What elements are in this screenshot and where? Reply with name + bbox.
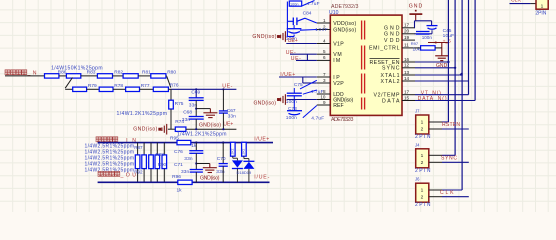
port 辅助电源_IN — [96, 137, 118, 142]
wire — [248, 159, 250, 162]
svg-text:R76: R76 — [170, 83, 179, 89]
svg-text:1: 1 — [421, 153, 424, 159]
svg-text:UE-: UE- — [286, 50, 296, 56]
wire diagonal to pin 1a — [297, 18, 305, 21]
svg-text:R96: R96 — [172, 174, 181, 180]
wire — [293, 35, 295, 37]
svg-text:17: 17 — [404, 23, 410, 28]
svg-text:33n: 33n — [228, 114, 237, 120]
resistor R91 shunt — [162, 155, 167, 169]
wire rail 辅助电源_IN / I/UE+ — [98, 142, 273, 144]
resistor R88 shunt — [142, 155, 147, 169]
ground symbol GND(iso) — [159, 124, 167, 135]
svg-text:5: 5 — [323, 49, 326, 54]
svg-text:33n: 33n — [181, 169, 190, 175]
resistor R74 — [175, 127, 186, 131]
wire D19 to rail — [248, 169, 250, 182]
wire — [244, 158, 249, 160]
svg-text:R87: R87 — [134, 145, 143, 150]
wire C70 to rail — [222, 166, 224, 182]
pin stub — [530, 3, 536, 5]
resistor R81 — [123, 74, 138, 78]
wire pin2 — [442, 128, 469, 130]
svg-text:100n: 100n — [286, 115, 297, 121]
ground symbol GND(iso) middle — [203, 109, 217, 118]
wire — [287, 20, 293, 22]
pin 1 stub — [429, 121, 442, 123]
svg-text:DATA_N(): DATA_N() — [418, 96, 447, 102]
wire — [195, 153, 197, 169]
resistor R77 — [126, 87, 140, 91]
resistor R80 — [151, 74, 166, 78]
svg-text:2: 2 — [421, 194, 424, 200]
wire — [168, 88, 171, 90]
resistor R79 — [73, 87, 87, 91]
wire down to ground — [441, 43, 443, 56]
wire shunt 2 top — [143, 143, 145, 155]
pin 15 DATA stub — [402, 100, 415, 102]
svg-text:C68: C68 — [183, 109, 192, 115]
svg-text:VM: VM — [333, 52, 342, 58]
wire XTAL2 — [415, 80, 469, 82]
connector J6 body — [416, 183, 429, 202]
resistor R75 — [169, 100, 174, 109]
resistor R90 shunt — [155, 155, 160, 169]
wire shunt 3 top — [150, 143, 152, 155]
junction — [454, 67, 456, 69]
resistor R87 shunt — [135, 155, 140, 169]
wire — [140, 88, 154, 90]
wire — [195, 100, 197, 116]
wire diagonal to pin 2 — [300, 29, 317, 32]
wire — [287, 36, 294, 38]
svg-text:V1P: V1P — [333, 41, 344, 47]
wire diagonal row1 to row2 left — [65, 78, 72, 89]
svg-text:R77: R77 — [141, 83, 150, 89]
svg-text:12: 12 — [404, 63, 410, 68]
wire — [286, 36, 289, 38]
svg-text:1/4W1.2K1%25ppm: 1/4W1.2K1%25ppm — [117, 111, 168, 117]
diode D19 — [243, 162, 254, 169]
wire shunt 3 bottom — [150, 169, 152, 183]
resistor R83 — [66, 74, 80, 78]
svg-text:6: 6 — [323, 55, 326, 60]
svg-text:VDD(iso): VDD(iso) — [333, 21, 356, 27]
svg-text:I/UE-: I/UE- — [254, 175, 269, 181]
capacitor C69 — [189, 98, 204, 101]
junction — [447, 61, 449, 63]
op-amp U10 ADE7932/3 body — [330, 15, 402, 115]
svg-text:20: 20 — [404, 29, 410, 34]
wire pin1 — [442, 121, 448, 123]
svg-text:C69: C69 — [191, 89, 200, 95]
junction — [222, 88, 224, 90]
wire diagonal row1 to row2 right — [167, 76, 171, 87]
wire C71 to rail — [195, 172, 197, 182]
capacitor C73 100n polarized — [287, 110, 302, 112]
wire pin1 — [442, 189, 462, 191]
wire DATA net — [415, 100, 475, 102]
junction — [195, 88, 197, 90]
svg-text:_OU: _OU — [120, 173, 137, 179]
wire pin1 — [442, 154, 455, 156]
wire — [168, 128, 175, 130]
wire — [243, 156, 245, 158]
wire row2 — [65, 88, 73, 90]
pin 16 RESET_EN stub — [402, 61, 415, 63]
svg-text:16: 16 — [404, 57, 410, 62]
wire +_5 net — [428, 42, 448, 44]
resistor R93 vertical — [231, 142, 236, 156]
wire bend — [460, 73, 462, 75]
svg-text:DATA: DATA — [382, 98, 400, 104]
wire shunt 4 top — [156, 143, 158, 155]
pin 12 SYNC stub — [402, 67, 415, 69]
ground symbol GND(iso) lower — [203, 164, 217, 173]
wire — [165, 75, 168, 77]
pin 4 V1P stub — [317, 43, 331, 45]
wire shunt 4 bottom — [156, 169, 158, 183]
cathode bar D19 — [243, 160, 254, 162]
wire — [293, 88, 295, 93]
svg-text:R75: R75 — [175, 101, 184, 107]
svg-text:R90: R90 — [158, 162, 167, 167]
wire vertical DATA bus — [474, 0, 476, 101]
wire IP — [279, 76, 317, 78]
svg-text:2: 2 — [421, 160, 424, 166]
wire — [302, 77, 304, 83]
svg-text:GND(iso): GND(iso) — [133, 127, 157, 133]
resistor R94 vertical — [242, 142, 247, 156]
wire UE+ node — [186, 128, 237, 130]
wire — [113, 75, 124, 77]
wire — [415, 47, 421, 49]
svg-text:2PIN: 2PIN — [535, 10, 546, 16]
svg-text:4: 4 — [323, 38, 326, 43]
wire IM — [296, 59, 317, 61]
wire — [236, 158, 238, 160]
wire — [286, 2, 288, 22]
svg-text:R83: R83 — [87, 70, 96, 76]
svg-text:17: 17 — [404, 90, 410, 95]
svg-text:33n: 33n — [184, 156, 193, 162]
wire to C69 — [195, 89, 197, 98]
wire — [435, 47, 442, 49]
capacitor C85 10nF polarized — [287, 28, 302, 30]
capacitor C46 100n — [416, 31, 430, 33]
svg-text:10: 10 — [320, 94, 326, 99]
svg-text:1: 1 — [421, 188, 424, 194]
svg-text:3: 3 — [323, 78, 326, 83]
connector J5 body — [536, 0, 548, 9]
wire — [233, 157, 238, 159]
wire — [510, 3, 531, 5]
svg-text:33n: 33n — [182, 117, 191, 123]
wire shunt 5 top — [163, 143, 165, 155]
svg-text:SYNC: SYNC — [382, 66, 400, 72]
wire UE- net — [171, 88, 236, 90]
cathode bar D18 — [232, 168, 243, 170]
svg-text:R86: R86 — [58, 70, 67, 76]
junction — [195, 128, 197, 130]
wire C68 to UE+ node — [195, 119, 197, 129]
pin 20 GND stub — [402, 33, 415, 35]
svg-text:2R2: 2R2 — [231, 148, 235, 154]
pin 1 stub — [429, 189, 442, 191]
ground symbol GND(iso) top — [278, 31, 286, 42]
wire XTAL1 — [415, 74, 460, 76]
svg-text:2: 2 — [421, 127, 424, 133]
svg-text:10k: 10k — [413, 46, 421, 52]
svg-text:2R2: 2R2 — [242, 148, 246, 154]
wire — [431, 21, 433, 26]
svg-text:1: 1 — [541, 4, 544, 10]
capacitor C84 — [293, 18, 297, 26]
junction — [195, 141, 197, 143]
wire diagonal LDO — [303, 90, 317, 94]
pin 2 GND(iso) stub — [317, 29, 331, 31]
svg-text:XTAL2: XTAL2 — [381, 79, 400, 85]
wire tie VM-IM — [306, 54, 308, 60]
capacitor C67 — [219, 111, 228, 113]
overline RESET_EN — [370, 57, 400, 59]
pin 11 EMI_CTRL stub — [402, 47, 415, 49]
svg-text:4.7uF: 4.7uF — [307, 1, 320, 7]
pin 5 VM stub — [317, 53, 331, 55]
svg-text:GND: GND — [384, 32, 400, 38]
resistor 100n top edge — [289, 1, 301, 6]
svg-text:J6: J6 — [415, 177, 420, 182]
svg-text:100n: 100n — [290, 3, 298, 7]
resistor R96 — [178, 180, 192, 184]
svg-text:GND(iso): GND(iso) — [199, 123, 221, 129]
wire vertical RSTEN bus — [447, 0, 449, 122]
wire shunt 5 bottom — [163, 169, 165, 183]
svg-text:C70: C70 — [217, 156, 226, 162]
wire D18 to rail — [236, 169, 238, 183]
wire SYNC — [415, 67, 455, 69]
pin 3 V2P stub — [317, 82, 331, 84]
bend — [460, 73, 463, 76]
wire to C76 — [195, 143, 197, 151]
svg-text:C67: C67 — [227, 108, 236, 114]
resistor R97 10k — [421, 46, 436, 50]
wire — [415, 20, 432, 22]
svg-text:1: 1 — [421, 120, 424, 126]
svg-text:GND(iso): GND(iso) — [254, 101, 277, 107]
resistor R82 — [97, 74, 112, 78]
svg-text:IM: IM — [333, 58, 340, 64]
junction — [222, 141, 224, 143]
wire diagonal C75 — [300, 80, 317, 89]
svg-text:UE+: UE+ — [223, 122, 233, 128]
svg-text:R97: R97 — [411, 41, 419, 46]
wire — [81, 75, 98, 77]
wire V2P — [303, 82, 317, 84]
wire to C70 — [222, 143, 224, 164]
svg-text:J4: J4 — [415, 142, 420, 147]
pin 1 VDD(iso) stub — [317, 22, 331, 24]
pin 10 GND(iso) stub — [317, 99, 331, 101]
svg-text:R78: R78 — [114, 83, 123, 89]
svg-text:CLK: CLK — [511, 0, 522, 3]
wire diagonal — [302, 1, 314, 6]
connector J4 body — [416, 149, 429, 168]
pin 9 REF stub — [317, 104, 331, 106]
wire vertical SYNC bus — [454, 0, 456, 155]
svg-text:1: 1 — [323, 18, 326, 23]
capacitor C68 — [189, 117, 204, 120]
connector J7 body — [416, 115, 429, 134]
wire R75 to node — [170, 109, 172, 129]
wire — [431, 30, 433, 34]
svg-text:1/4W1.2K1%25ppm: 1/4W1.2K1%25ppm — [177, 132, 227, 138]
resistor R95 — [177, 140, 191, 144]
svg-text:R79: R79 — [88, 83, 97, 89]
svg-text:R82: R82 — [114, 70, 123, 76]
svg-text:VDD: VDD — [384, 38, 400, 44]
wire cap column — [293, 96, 295, 111]
wire GND(iso) pin 10 — [287, 99, 317, 101]
svg-text:ADE7932/3: ADE7932/3 — [331, 117, 354, 123]
ground bar — [409, 13, 422, 15]
pin 2 stub — [429, 196, 442, 198]
wire — [113, 88, 126, 90]
svg-text:15: 15 — [404, 95, 410, 100]
svg-text:4.7uF: 4.7uF — [311, 115, 324, 121]
isolation barrier bars — [361, 21, 363, 40]
junction — [195, 162, 197, 164]
junction — [195, 108, 197, 110]
wire RESET_EN — [415, 61, 448, 63]
pin 2 stub — [429, 128, 442, 130]
svg-text:EMI_CTRL: EMI_CTRL — [369, 46, 400, 52]
svg-text:19: 19 — [404, 35, 410, 40]
svg-text:C84: C84 — [303, 11, 312, 17]
wire diagonal to pin 1b — [305, 18, 317, 23]
svg-text:14: 14 — [404, 76, 410, 81]
wire — [138, 75, 151, 77]
pin 2 stub — [429, 161, 442, 163]
wire — [87, 88, 100, 90]
wire — [232, 156, 234, 158]
svg-text:REF: REF — [333, 103, 344, 109]
resistor R86 — [45, 74, 59, 78]
ground symbol GND(iso) — [278, 94, 286, 105]
svg-text:C76: C76 — [174, 149, 183, 155]
svg-text:10nF: 10nF — [315, 27, 328, 33]
wire shunt 2 bottom — [143, 169, 145, 183]
svg-text:GND: GND — [409, 3, 423, 9]
capacitor C45 10uF polarized — [427, 25, 438, 27]
svg-text:CLK: CLK — [440, 190, 454, 196]
junction — [222, 128, 224, 130]
svg-text:I/UE+: I/UE+ — [254, 137, 269, 143]
svg-text:13: 13 — [404, 70, 410, 75]
svg-text:D18D19: D18D19 — [237, 170, 252, 175]
svg-text:R80: R80 — [167, 70, 176, 76]
diode D18 — [232, 160, 243, 167]
wire vertical CLK bus — [461, 0, 463, 190]
wire row1 from 辅助电源_N — [5, 75, 45, 77]
port 辅助电源_OU — [98, 171, 120, 176]
wire to C67 — [222, 89, 224, 111]
capacitor C70 — [219, 164, 228, 167]
capacitor C71 — [190, 170, 203, 173]
pin 8 LDO stub — [317, 93, 331, 95]
wire shunt 1 bottom — [137, 169, 139, 183]
svg-text:C71: C71 — [174, 162, 183, 168]
svg-text:R81: R81 — [142, 70, 151, 76]
pin 13 XTAL1 stub — [402, 74, 415, 76]
wire — [59, 75, 67, 77]
svg-text:UE-: UE- — [291, 56, 301, 62]
wire diagonal REF — [303, 106, 317, 118]
wire to ground — [196, 163, 210, 165]
resistor R89 shunt — [149, 155, 154, 169]
wire pin 20 — [415, 33, 433, 35]
pin 17 V2/TEMP stub — [402, 94, 415, 96]
svg-text:100n: 100n — [422, 35, 433, 40]
svg-text:1k: 1k — [177, 187, 183, 193]
resistor R76 — [153, 87, 168, 91]
ground symbol below C45 — [435, 55, 448, 57]
svg-text:9: 9 — [323, 100, 326, 105]
wire to ground — [196, 108, 210, 110]
pin 19 VDD stub — [402, 39, 415, 41]
svg-text:11: 11 — [404, 43, 409, 48]
pin 17 GND stub — [402, 27, 415, 29]
wire down to R75 — [170, 89, 172, 100]
svg-text:SYNC: SYNC — [441, 155, 457, 161]
wire — [293, 25, 295, 29]
svg-text:GND(iso): GND(iso) — [200, 176, 220, 182]
pin 1 stub — [429, 154, 442, 156]
capacitor C76 — [189, 151, 203, 154]
wire pin2 — [442, 161, 469, 163]
pin 14 XTAL2 stub — [402, 80, 415, 82]
svg-text:V2P: V2P — [333, 81, 344, 87]
svg-text:C45: C45 — [443, 28, 452, 34]
pin 6 IM stub — [317, 59, 331, 61]
capacitor C74 100n — [287, 92, 302, 94]
wire C67 down — [222, 113, 224, 129]
wire — [286, 21, 288, 36]
svg-text:GND(iso): GND(iso) — [333, 27, 356, 33]
ground stem — [415, 14, 417, 21]
resistor R78 — [99, 87, 113, 91]
svg-text:C75: C75 — [294, 82, 303, 88]
svg-text:R88: R88 — [156, 152, 165, 157]
wire pin2 — [442, 196, 469, 198]
pin 7 IP stub — [317, 76, 331, 78]
svg-text:GND(iso): GND(iso) — [252, 34, 276, 40]
junction — [435, 42, 437, 44]
svg-text:+_5: +_5 — [443, 38, 451, 44]
svg-text:RSTEN: RSTEN — [442, 122, 460, 128]
wire shunt 1 top — [137, 143, 139, 155]
wire vertical VT bus — [468, 0, 470, 95]
wire V1P — [286, 43, 317, 45]
svg-text:J7: J7 — [415, 109, 420, 114]
wire rail 辅助电源_OU / I/UE- — [98, 181, 270, 183]
port 辅助电源_N — [5, 70, 27, 75]
wire VM — [290, 53, 317, 55]
svg-text:4.7uF: 4.7uF — [311, 89, 324, 95]
wire pin 17 up — [414, 21, 416, 28]
wire V2/TEMP net — [415, 94, 469, 96]
svg-text:7: 7 — [323, 72, 326, 77]
